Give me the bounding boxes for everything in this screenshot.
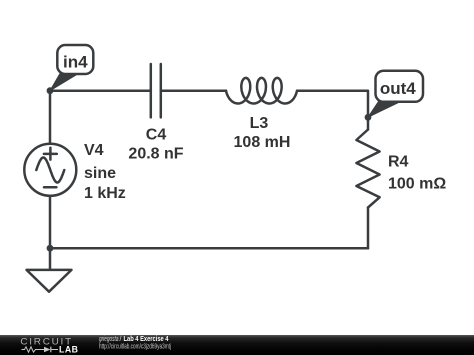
svg-text:R4: R4 bbox=[388, 154, 409, 171]
svg-text:L3: L3 bbox=[250, 115, 269, 132]
svg-text:108 mH: 108 mH bbox=[234, 134, 291, 151]
resistor R4 zigzag bbox=[356, 130, 379, 208]
svg-text:20.8 nF: 20.8 nF bbox=[128, 146, 183, 163]
node out4 junction dot bbox=[365, 114, 372, 121]
node in4 junction dot bbox=[47, 87, 54, 94]
ground junction dot bbox=[47, 245, 54, 252]
svg-text:C4: C4 bbox=[146, 127, 167, 144]
svg-text:1 kHz: 1 kHz bbox=[84, 185, 126, 202]
V4 sine waveform bbox=[36, 158, 64, 183]
node in4 flag pointer bbox=[50, 74, 79, 91]
CircuitLab logo resistor glyph bbox=[22, 347, 45, 352]
node in4 flag box bbox=[57, 45, 93, 74]
svg-text:V4: V4 bbox=[84, 142, 104, 159]
svg-text:in4: in4 bbox=[63, 53, 88, 72]
ground symbol triangle bbox=[27, 270, 72, 292]
footer bar bbox=[0, 335, 474, 355]
svg-text:sine: sine bbox=[84, 165, 116, 182]
CircuitLab logo diode glyph bbox=[44, 347, 58, 353]
svg-text:LAB: LAB bbox=[59, 345, 79, 355]
svg-text:http://circuitlab.com/c3jzd69y: http://circuitlab.com/c3jzd69ya3mtj bbox=[99, 342, 171, 351]
node out4 flag box bbox=[376, 71, 424, 102]
wire bottom rail bbox=[50, 247, 368, 250]
wire L3 to top-right corner down to out4 node bbox=[298, 91, 368, 130]
V4 minus sign bbox=[44, 186, 56, 189]
inductor L3 coil bbox=[226, 78, 297, 104]
wire left vertical: in4 node to V4 top bbox=[49, 91, 52, 144]
V4 plus sign bbox=[44, 148, 57, 160]
wire V4 bottom to ground junction bbox=[49, 196, 52, 248]
wire top-left horizontal (in4 node to C4 left plate) bbox=[50, 89, 151, 92]
wire C4 right plate to L3 bbox=[161, 89, 226, 92]
svg-text:100 mΩ: 100 mΩ bbox=[388, 176, 446, 193]
capacitor C4 plates bbox=[151, 64, 161, 117]
svg-text:out4: out4 bbox=[380, 79, 416, 98]
wire R4 bottom to bottom rail bbox=[367, 208, 370, 249]
ground lead bbox=[49, 248, 52, 270]
node out4 flag pointer bbox=[368, 102, 401, 118]
voltage source V4 circle bbox=[24, 144, 76, 196]
